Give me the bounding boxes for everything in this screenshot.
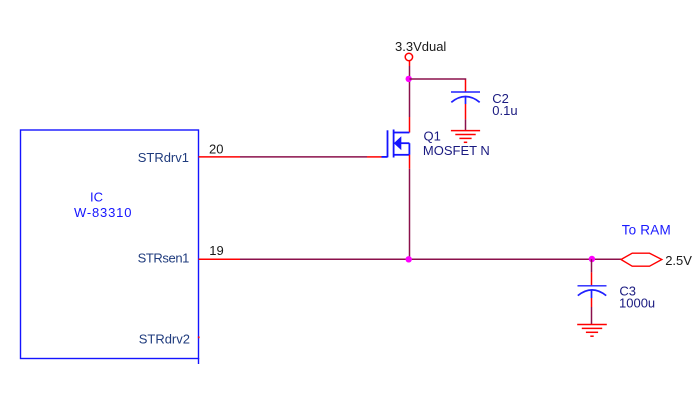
junction node C3 branch xyxy=(589,256,595,262)
power symbol 3.3Vdual circle xyxy=(405,53,412,60)
Q1 drain lead xyxy=(394,132,410,134)
STRdrv2 zero-length pin (red tick) xyxy=(198,337,200,339)
Q1 body-source connection xyxy=(408,143,410,155)
capacitor C3 curved plate xyxy=(578,290,606,296)
Q1 gate pin stub (red) xyxy=(367,156,382,158)
svg-text:0.1u: 0.1u xyxy=(492,103,517,118)
svg-text:IC: IC xyxy=(90,189,103,204)
svg-text:To RAM: To RAM xyxy=(622,223,671,238)
wire junction to C3 (maroon) xyxy=(591,259,593,272)
IC U1 box xyxy=(21,130,199,359)
svg-text:Q1: Q1 xyxy=(424,128,441,143)
Q1 body arrow xyxy=(394,136,402,150)
wire C3 to ground (maroon) xyxy=(591,307,593,324)
svg-text:1000u: 1000u xyxy=(619,296,655,311)
svg-text:STRdrv2: STRdrv2 xyxy=(139,331,190,346)
C3 bottom pin stub (red) xyxy=(591,298,593,307)
pin 20 stub (red) xyxy=(199,156,241,158)
pin 19 stub (red) xyxy=(199,258,241,260)
capacitor C2 top plate xyxy=(451,91,480,93)
Q1 drain pin stub (red) xyxy=(409,117,411,133)
IC right-edge overhang xyxy=(198,358,200,364)
power pin stub (red) xyxy=(409,61,411,66)
capacitor C2 curved plate xyxy=(451,97,479,103)
Q1 gate bar xyxy=(387,130,389,157)
C2 top pin stub (red) xyxy=(465,80,467,92)
Q1 body lead xyxy=(401,142,409,144)
wire junction to C2 (maroon) xyxy=(410,79,466,80)
svg-text:20: 20 xyxy=(209,142,223,157)
svg-text:19: 19 xyxy=(209,243,223,258)
C3 lower lead (blue) xyxy=(591,290,593,298)
Q1 gate lead xyxy=(382,156,388,158)
C2 bottom pin stub (red) xyxy=(465,104,467,119)
junction node source/net xyxy=(406,256,412,262)
C3 top pin stub (red) xyxy=(591,272,593,285)
wire STRsen1 net (maroon) xyxy=(240,258,621,260)
wire pin20 to gate (maroon) xyxy=(240,156,367,158)
capacitor C3 top plate xyxy=(578,285,607,287)
svg-text:W-83310: W-83310 xyxy=(74,205,132,220)
svg-text:2.5V: 2.5V xyxy=(665,253,692,268)
svg-text:MOSFET N: MOSFET N xyxy=(423,143,490,158)
transistor Q1 MOSFET N symbol xyxy=(382,130,410,158)
wire source to STRsen1 net (maroon) xyxy=(409,169,411,259)
off-page connector to RAM (hexagon) xyxy=(621,253,662,266)
svg-text:STRsen1: STRsen1 xyxy=(138,251,190,266)
svg-text:3.3Vdual: 3.3Vdual xyxy=(395,39,446,54)
Q1 source pin stub (red) xyxy=(409,155,411,169)
wire C2 to ground (maroon) xyxy=(465,119,467,130)
Q1 source lead xyxy=(394,154,410,156)
svg-text:STRdrv1: STRdrv1 xyxy=(138,150,189,165)
junction node at power branch xyxy=(406,76,412,82)
ground symbol for C2 xyxy=(451,131,480,143)
C2 lower lead (blue) xyxy=(465,97,467,105)
Q1 channel bar xyxy=(393,130,395,158)
ground symbol for C3 xyxy=(577,325,607,337)
wire power to junction (maroon) xyxy=(409,66,411,117)
